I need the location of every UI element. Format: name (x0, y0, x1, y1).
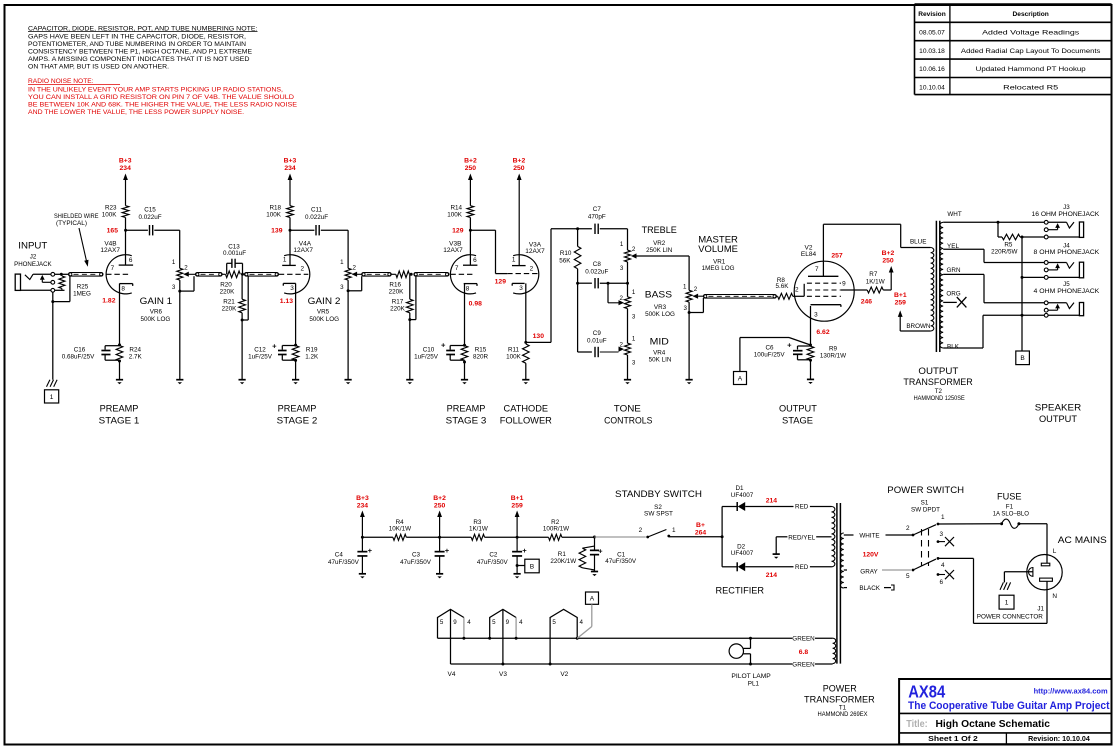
svg-text:2: 2 (632, 246, 636, 253)
label 1.2K (305, 353, 319, 360)
ground (stage2 cathode) (292, 380, 299, 385)
svg-text:Revision: Revision (918, 11, 945, 18)
label 0.01uF (587, 337, 607, 344)
label GAIN 2 (308, 295, 341, 306)
wire R24 to ground (119, 361, 121, 380)
label V3A (529, 241, 542, 248)
node R19 bottom (294, 359, 297, 362)
title OUTPUT STAGE (779, 404, 817, 427)
svg-text:B+: B+ (696, 522, 705, 529)
ground (stage1 cathode) (116, 380, 123, 385)
label VR3 (654, 304, 667, 311)
capacitor C4 47uF/350V (357, 537, 367, 574)
V4B cathode (119, 284, 132, 286)
VR1 pin2 (694, 286, 698, 293)
label 0.022uF (C8) (585, 268, 608, 275)
label Sheet 1 Of 2 (928, 736, 978, 743)
wire V2 plate up (822, 224, 824, 276)
label R21 (223, 299, 235, 306)
V4 heater tent (438, 609, 464, 664)
node R15 bottom (463, 361, 466, 364)
connector J3 16-ohm phonejack (1044, 220, 1083, 239)
wire coax to R8 (776, 295, 777, 297)
svg-text:1.82: 1.82 (102, 297, 115, 304)
svg-text:1: 1 (632, 335, 636, 342)
connector J5 4-ohm phonejack (1044, 301, 1083, 317)
potentiometer VR1 1MEG LOG (master) (686, 290, 698, 302)
node VR1 terminal3 (688, 311, 691, 314)
label S1 (921, 500, 929, 507)
svg-text:EL84: EL84 (801, 251, 817, 258)
svg-text:J1: J1 (1037, 606, 1044, 613)
switch S2 standby (646, 530, 670, 539)
svg-text:Revision: 10.10.04: Revision: 10.10.04 (1028, 736, 1090, 743)
title POWER TRANSFORMER (804, 683, 875, 705)
title PREAMP STAGE 3 (446, 404, 487, 427)
svg-text:47uF/350V: 47uF/350V (477, 559, 509, 566)
svg-text:+: + (787, 341, 792, 350)
label R5 (1004, 242, 1013, 249)
svg-text:250: 250 (513, 165, 525, 172)
wire 129 node to V3A grid (470, 230, 507, 273)
svg-text:1: 1 (512, 256, 516, 263)
wire tone top line (576, 228, 592, 230)
svg-text:Description: Description (1013, 11, 1049, 18)
fuse F1 (1000, 519, 1020, 528)
potentiometer VR2 250K LIN (treble) (625, 250, 637, 262)
shielded cable (VR5 to R16) (362, 273, 392, 277)
svg-text:2: 2 (795, 286, 799, 293)
svg-text:C12: C12 (254, 346, 266, 353)
logo AX84 (908, 682, 945, 702)
voltage 1.13 (280, 298, 293, 305)
label 1A SLO-BLO (993, 511, 1029, 518)
capacitor C9 0.01uF (595, 347, 598, 357)
capacitor C2 47uF/350V (512, 537, 522, 574)
svg-text:2: 2 (530, 266, 534, 273)
svg-text:6.8: 6.8 (799, 649, 809, 656)
svg-text:RED: RED (795, 564, 809, 571)
label R17 (392, 299, 404, 306)
tube V3A 12AX7 (triode) (513, 255, 539, 294)
voltage 120V (863, 552, 879, 559)
svg-text:1: 1 (632, 289, 636, 296)
pin 9 label (V2) (842, 280, 846, 287)
svg-text:+: + (598, 547, 603, 556)
label VOLUME (698, 243, 738, 254)
VR6 pin3 (172, 284, 176, 291)
pin 1 label (V3A) (512, 256, 516, 263)
VR1 pin3 (684, 305, 688, 312)
power arrow B+2 stage3 (468, 174, 473, 206)
label BASS (645, 289, 672, 300)
V3B grid (dashed) (450, 273, 472, 275)
plus sign C4 (368, 546, 373, 555)
label C16 (74, 346, 86, 353)
switch S1 pole B (912, 557, 940, 571)
wire V2 cathode down (810, 306, 812, 345)
svg-text:GAPS HAVE BEEN LEFT IN THE CAP: GAPS HAVE BEEN LEFT IN THE CAPACITOR, DI… (28, 34, 246, 41)
label R24 (129, 346, 141, 353)
V3A grid (dashed) (507, 273, 538, 275)
svg-text:FUSE: FUSE (997, 491, 1022, 502)
svg-text:R25: R25 (77, 283, 89, 290)
title PREAMP STAGE 2 (277, 404, 318, 427)
wire cathode out to tone (526, 229, 576, 343)
V2 plate bar (808, 275, 838, 277)
label C12 (254, 346, 266, 353)
pin 2 label (V4A) (301, 266, 305, 273)
net B+3 (stage2) (284, 157, 297, 172)
wire R5 to J3 sleeve (1022, 236, 1044, 238)
title PREAMP STAGE 1 (99, 404, 140, 427)
svg-text:0.022uF: 0.022uF (585, 268, 608, 275)
svg-text:259: 259 (511, 502, 523, 509)
label V4 (heater) (448, 671, 456, 678)
svg-text:PREAMP: PREAMP (278, 404, 317, 415)
svg-text:3: 3 (340, 284, 344, 291)
X mark ORG (957, 297, 967, 307)
svg-text:FOLLOWER: FOLLOWER (500, 415, 552, 426)
svg-text:08.05.07: 08.05.07 (919, 29, 945, 36)
label 220K (R16) (389, 289, 405, 296)
svg-text:TRANSFORMER: TRANSFORMER (903, 377, 972, 388)
svg-text:V4: V4 (448, 671, 456, 678)
wire VR4 bottom to ground (627, 355, 629, 380)
label 470pF (588, 214, 606, 221)
label MASTER (698, 233, 738, 244)
VR6 pin1 (172, 259, 176, 266)
label VR4 (653, 349, 666, 356)
voltage 6.62 (816, 329, 829, 336)
svg-text:R23: R23 (105, 205, 117, 212)
AC N pin (1040, 578, 1053, 581)
label V4A (299, 240, 312, 247)
svg-text:STAGE 1: STAGE 1 (99, 415, 140, 426)
svg-text:1.2K: 1.2K (305, 353, 319, 360)
power arrow B+1 (OT) (898, 310, 903, 331)
svg-text:1: 1 (941, 514, 945, 521)
svg-text:WHITE: WHITE (859, 533, 879, 540)
title block frame (899, 679, 1111, 744)
svg-text:259: 259 (895, 300, 907, 307)
resistor R21 220K (239, 274, 246, 320)
svg-text:220K: 220K (390, 306, 406, 313)
capacitor C7 470pF (595, 224, 598, 234)
svg-text:5.6K: 5.6K (776, 283, 790, 290)
svg-text:130R/1W: 130R/1W (820, 353, 846, 360)
svg-text:220K: 220K (389, 289, 405, 296)
AC mains plug (1027, 555, 1062, 590)
label 12AX7 (V3A) (525, 248, 545, 255)
node V2 pin4 (576, 637, 579, 640)
label R25 (77, 283, 89, 290)
label 50K LIN (649, 356, 672, 363)
voltage 139 (271, 228, 283, 235)
shielded cable (R16 to V3B) (414, 273, 449, 277)
wire WHT tap (943, 221, 1044, 223)
S1 mechanical link (dashed) (922, 529, 929, 566)
svg-text:C7: C7 (593, 206, 602, 213)
label TREBLE (642, 224, 677, 235)
revision table (915, 4, 1112, 95)
label J3 (1063, 204, 1070, 211)
resistor R2 100R/1W (549, 534, 562, 540)
title CATHODE FOLLOWER (500, 404, 552, 427)
svg-text:Title:: Title: (906, 719, 928, 730)
wire RED2 to PT (810, 566, 832, 568)
S2 pin2 (639, 527, 643, 534)
AC ground pin (1029, 568, 1033, 577)
svg-text:Updated Hammond PT Hookup: Updated Hammond PT Hookup (976, 66, 1086, 73)
svg-text:PREAMP: PREAMP (100, 404, 139, 415)
svg-text:5: 5 (552, 619, 556, 626)
label R14 (450, 205, 462, 212)
svg-text:F1: F1 (1006, 503, 1014, 510)
wire C8 to VR3 node (600, 282, 628, 284)
svg-text:50K LIN: 50K LIN (649, 356, 672, 363)
node jack tip junction (60, 273, 63, 276)
node V4 pin4 (462, 637, 465, 640)
svg-text:8: 8 (121, 285, 125, 292)
label T2 (935, 388, 943, 395)
svg-text:10.06.16: 10.06.16 (919, 66, 945, 73)
svg-text:B+2: B+2 (513, 157, 526, 164)
node pilot lamp bottom (749, 663, 752, 666)
svg-text:220R/5W: 220R/5W (991, 249, 1017, 256)
label C6 (765, 345, 774, 352)
voltage 129 (V3A grid) (495, 279, 507, 286)
label RED (bottom) (795, 564, 809, 571)
label 820R (473, 353, 489, 360)
V2 cathode (811, 305, 841, 307)
ground (VR1) (686, 380, 693, 385)
svg-text:B: B (1020, 355, 1025, 362)
node R17 bottom (408, 318, 411, 321)
V3A cathode (512, 283, 524, 285)
svg-text:2: 2 (639, 527, 643, 534)
node B box (supply) (525, 559, 539, 573)
label C7 (593, 206, 602, 213)
voltage 165 (107, 228, 119, 235)
wire V3A cathode down (525, 283, 527, 342)
label 1MEG (73, 291, 91, 298)
label V2 (805, 245, 813, 252)
svg-text:B: B (530, 563, 535, 570)
wire rail R4-C3 (406, 536, 439, 538)
svg-text:BLACK: BLACK (859, 585, 880, 592)
power arrow B+2 (screen) (889, 266, 894, 290)
wire V2 plate to OT primary (BLUE) (823, 224, 930, 247)
VR5 pin3 (340, 284, 344, 291)
svg-text:VR3: VR3 (654, 304, 667, 311)
wire AC N loop (938, 558, 1047, 623)
svg-text:HAMMOND 269EX: HAMMOND 269EX (818, 711, 868, 718)
label 500K LOG (VR3) (645, 311, 675, 318)
V3 pin9 label (506, 619, 510, 626)
svg-text:2: 2 (619, 341, 623, 348)
svg-text:WHT: WHT (947, 211, 961, 218)
label Title: (906, 719, 928, 730)
svg-text:100uF/25V: 100uF/25V (754, 352, 786, 359)
ground (R17) (406, 380, 413, 385)
svg-text:4 OHM PHONEJACK: 4 OHM PHONEJACK (1034, 288, 1101, 295)
wire WHITE (844, 534, 913, 536)
svg-text:0.68uF/25V: 0.68uF/25V (62, 354, 95, 361)
label VR5 (317, 309, 330, 316)
wire VR6 t3 shield hook (180, 276, 194, 291)
label FUSE (997, 491, 1022, 502)
callout shielded wire (typical) (54, 213, 99, 267)
svg-text:1: 1 (1005, 600, 1009, 607)
label V3B (449, 240, 461, 247)
net B+1 (supply) (511, 495, 524, 538)
svg-text:0.98: 0.98 (469, 301, 482, 308)
label R23 (105, 205, 117, 212)
node shield junction (51, 300, 54, 303)
voltage 0.98 (469, 301, 482, 308)
svg-text:250: 250 (434, 502, 446, 509)
label R19 (306, 346, 318, 353)
svg-text:4: 4 (467, 619, 471, 626)
resistor R5 220R/5W (998, 222, 1022, 240)
svg-text:R9: R9 (829, 345, 838, 352)
svg-text:220K: 220K (222, 306, 238, 313)
S1 contact3 unused (937, 537, 954, 546)
wire R21 to ground (241, 320, 243, 380)
label BLACK (859, 585, 880, 592)
wire YEL tap (943, 249, 1044, 262)
svg-text:1: 1 (683, 283, 687, 290)
wire sleeve down (52, 302, 54, 380)
label 130R/1W (820, 353, 846, 360)
svg-text:C16: C16 (74, 346, 86, 353)
svg-text:10K/1W: 10K/1W (389, 526, 411, 533)
wire C15 to VR6 top (154, 230, 179, 268)
svg-text:3: 3 (519, 285, 523, 292)
svg-text:470pF: 470pF (588, 214, 606, 221)
svg-text:IN THE UNLIKELY EVENT YOUR AMP: IN THE UNLIKELY EVENT YOUR AMP STARTS PI… (28, 86, 283, 93)
svg-text:0.01uF: 0.01uF (587, 337, 607, 344)
svg-text:130: 130 (533, 333, 545, 340)
V4A grid (dashed) (279, 273, 309, 275)
svg-text:GRAY: GRAY (860, 569, 878, 576)
svg-text:1: 1 (620, 241, 624, 248)
label 56K (559, 257, 571, 264)
chassis ground (input) (47, 380, 58, 387)
label 5.6K (776, 283, 790, 290)
shielded cable (R20 to V4A) (245, 273, 279, 277)
wire V4B cathode down (119, 284, 121, 345)
svg-text:GREEN: GREEN (792, 661, 815, 668)
label 16 OHM PHONEJACK (1032, 211, 1101, 218)
ground (R11) (522, 380, 529, 385)
svg-text:129: 129 (495, 279, 507, 286)
label 12AX7 (V4A) (293, 247, 313, 254)
voltage 1.82 (V4B cathode) (102, 297, 115, 304)
svg-text:500K LOG: 500K LOG (309, 316, 339, 323)
label 100K (102, 212, 118, 219)
wire R17 shield hook (410, 276, 416, 319)
resistor R3 1K/1W (471, 534, 484, 540)
label R16 (389, 281, 401, 288)
wire C7 to VR2 (600, 229, 628, 250)
diode D1 UF4007 (737, 502, 745, 511)
resistor R14 100K (467, 206, 474, 218)
svg-text:PREAMP: PREAMP (447, 404, 486, 415)
wire R11 to ground (525, 363, 527, 380)
svg-text:214: 214 (766, 498, 778, 505)
wire fuse to AC L (1019, 524, 1047, 564)
VR6 pin2 (184, 265, 188, 272)
svg-text:POWER: POWER (823, 683, 857, 694)
label C15 (144, 207, 156, 214)
svg-text:BROWN: BROWN (906, 323, 931, 330)
svg-text:5: 5 (492, 619, 496, 626)
label D2 (737, 543, 746, 550)
svg-text:47uF/350V: 47uF/350V (328, 559, 360, 566)
svg-text:GREEN: GREEN (792, 635, 815, 642)
label VR6 (150, 309, 163, 316)
V4A plate bar (282, 264, 296, 266)
label R1 (558, 551, 567, 558)
label 100K (R14) (447, 212, 463, 219)
svg-text:100K: 100K (447, 212, 463, 219)
svg-text:10.10.04: 10.10.04 (919, 85, 945, 92)
ground (stage3 cathode) (461, 380, 468, 385)
svg-text:V3: V3 (499, 671, 507, 678)
node J4 sleeve bus (1021, 276, 1024, 279)
net B+2 (V3A) (513, 157, 526, 172)
diode D2 UF4007 (737, 562, 745, 571)
VR3 pin3 (632, 313, 636, 320)
tube V4B 12AX7 (triode) (106, 255, 132, 294)
svg-text:220K/1W: 220K/1W (550, 558, 576, 565)
wire center tap (776, 537, 831, 554)
svg-text:250: 250 (882, 257, 894, 264)
wire R7 to B+2 (883, 289, 891, 291)
label 0.68uF/25V (62, 354, 95, 361)
label 220K (220, 289, 236, 296)
svg-text:1uF/25V: 1uF/25V (414, 354, 439, 361)
node R10/C8 junction (576, 282, 579, 285)
ground (VR5) (345, 380, 352, 385)
node R21 bottom (241, 319, 244, 322)
label 0.022uF (138, 214, 161, 221)
label 220K (R21) (222, 306, 238, 313)
svg-text:9: 9 (453, 619, 457, 626)
OT secondary winding (940, 222, 943, 348)
svg-text:100K: 100K (102, 212, 118, 219)
V2 heater tent (550, 609, 577, 664)
resistor R23 100K (122, 206, 129, 218)
ground (R21) (239, 380, 246, 385)
pin 7 label (V2) (815, 266, 819, 273)
VR4 pin3 (632, 360, 636, 367)
svg-text:C4: C4 (335, 551, 344, 558)
label C10 (423, 346, 435, 353)
svg-text:1A SLO–BLO: 1A SLO–BLO (993, 511, 1029, 518)
V3A plate bar (512, 265, 526, 267)
resistor R17 220K (407, 274, 414, 319)
node rectifier junction (721, 535, 724, 538)
svg-text:Relocated R5: Relocated R5 (1003, 85, 1058, 92)
label 100K (R18) (266, 212, 282, 219)
svg-text:B+3: B+3 (119, 157, 132, 164)
node VR2/C8/VR3 junction (626, 282, 629, 285)
svg-text:CONTROLS: CONTROLS (604, 415, 652, 426)
svg-text:BLK: BLK (947, 343, 960, 350)
